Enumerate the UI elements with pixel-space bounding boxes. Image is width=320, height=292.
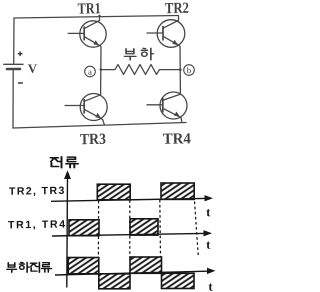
transistor TR4 (147, 92, 188, 122)
svg-text:TR2: TR2 (165, 0, 189, 17)
resistor load (wire + zigzag) (101, 65, 180, 75)
current axis vertical with up arrow (66, 174, 69, 288)
row3 up box 1 (68, 258, 99, 274)
row3 up box 2 (130, 257, 162, 273)
row3 down box 2 (162, 273, 195, 288)
label buha-jeonryu (load current) (7, 262, 51, 272)
dashed timeline 1 (97, 201, 99, 257)
svg-text:TR3: TR3 (80, 131, 106, 148)
wire battery bottom vertical (12, 71, 14, 129)
node b label (184, 65, 195, 76)
transistor TR2 (147, 16, 185, 48)
transistor TR3 (65, 94, 108, 126)
dashed timeline 2 (129, 200, 131, 256)
row1 pulse box 1 (97, 184, 130, 200)
label minus (18, 82, 23, 84)
svg-text:b: b (187, 65, 191, 75)
wire bottom rail (13, 123, 186, 129)
dashed timeline 4 (194, 197, 198, 257)
row1 pulse box 2 (161, 183, 194, 199)
svg-text:a: a (88, 67, 92, 77)
row2 pulse box 2 (130, 219, 158, 235)
wire node b vertical (TR2 emitter to TR4 collector) (179, 46, 181, 95)
node a label (85, 66, 96, 77)
label plus (18, 51, 23, 56)
transistor TR1 (68, 15, 107, 47)
row2 t axis (52, 233, 204, 236)
svg-text:TR1: TR1 (78, 0, 101, 17)
row3 down box 1 (99, 274, 130, 289)
page background (0, 0, 219, 292)
dashed timeline 3 (159, 200, 162, 257)
wire top rail (14, 16, 179, 19)
row1 t axis (51, 198, 205, 201)
label buha (load) (125, 48, 154, 60)
node A junction (100, 68, 103, 71)
row2 pulse box 1 (69, 220, 99, 236)
battery V plates (4, 63, 23, 65)
svg-text:TR4: TR4 (163, 130, 191, 147)
svg-text:TR1, TR4: TR1, TR4 (8, 218, 67, 231)
row3 t axis (55, 271, 207, 275)
wire left vertical to battery (13, 18, 15, 64)
wire node a vertical (TR1 emitter to TR3 collector) (100, 46, 102, 95)
label jeonryu (current) (51, 157, 79, 168)
svg-text:V: V (28, 62, 37, 76)
node B junction (179, 68, 182, 71)
svg-text:TR2, TR3: TR2, TR3 (9, 185, 66, 198)
